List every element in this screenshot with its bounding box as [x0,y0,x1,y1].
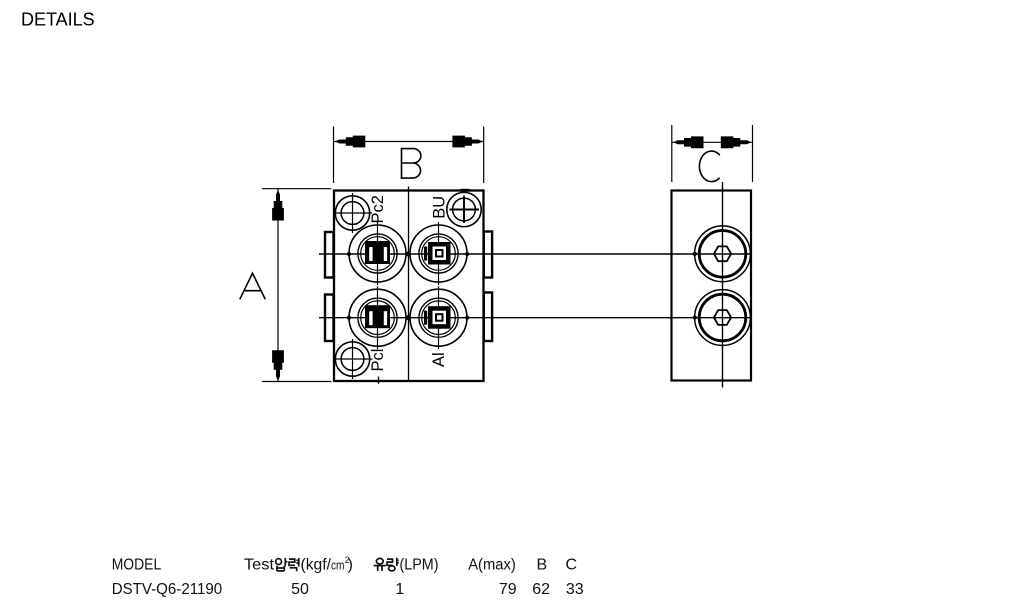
right tab upper [484,232,492,278]
port BU (top-right) [410,222,467,285]
port Al (bottom-right) [410,286,467,349]
svg-text:Pcl: Pcl [369,349,387,372]
svg-text:62: 62 [532,581,550,598]
dimension B right arrowhead [452,136,483,148]
svg-text:C: C [566,557,578,574]
horizontal centerline lower ports [319,317,750,319]
svg-text:BU: BU [431,196,449,219]
svg-text:(LPM): (LPM) [400,557,439,574]
dimension C left arrowhead [673,136,704,148]
bolt hole bottom-left [334,339,373,379]
side view vertical centerline [722,182,724,388]
side view outline [672,191,752,381]
hangul 유 [374,558,386,571]
dimension A line [277,189,279,382]
left tab lower [325,295,334,342]
junction dots on centerlines [347,252,697,321]
front view outline [334,191,484,382]
svg-text:33: 33 [566,581,584,598]
dimension C right arrowhead [721,136,752,148]
tick on top edge above BU bolt [461,189,470,192]
svg-text:(kgf/: (kgf/ [301,557,332,574]
svg-text:Test: Test [244,557,275,574]
front view center divider line [408,187,410,382]
hangul 량 [387,558,399,571]
svg-text:1: 1 [395,581,404,598]
dimension B left arrowhead [335,136,366,148]
dimension A letter [240,273,265,299]
dimension A extension lines [262,188,331,190]
svg-text:Pc2: Pc2 [369,195,387,223]
svg-text:B: B [537,557,548,574]
hangul 압 [276,558,288,571]
svg-text:50: 50 [291,581,309,598]
horizontal centerline upper ports [319,253,750,255]
dimension A bottom arrowhead [272,350,284,381]
svg-text:Al: Al [430,352,448,367]
right tab lower [484,293,492,342]
svg-text:79: 79 [499,581,517,598]
hangul 력 [289,558,299,571]
dimension C line [672,141,753,143]
dimension A top arrowhead [272,190,284,221]
svg-text:DETAILS: DETAILS [21,10,95,30]
svg-text:cm: cm [331,559,345,573]
svg-text:MODEL: MODEL [112,557,162,574]
dimension B line [334,141,484,143]
svg-text:DSTV-Q6-21190: DSTV-Q6-21190 [112,581,223,598]
port Pc2 (top-left) [349,222,406,285]
dimension B extension lines [333,127,335,184]
side view lower boss [695,290,751,346]
svg-text:A(max): A(max) [468,557,516,574]
port Pc1 (bottom-left) [349,286,406,349]
dimension B letter [401,149,421,179]
left tab upper [325,232,334,278]
bolt hole top-left [334,193,372,233]
svg-text:): ) [348,557,353,574]
bolt hole top-right [447,192,481,226]
tick below bottom edge under Pc1 [378,377,380,384]
dimension C extension lines [671,125,673,182]
dimension C letter [699,151,719,182]
side view upper boss [695,226,751,282]
